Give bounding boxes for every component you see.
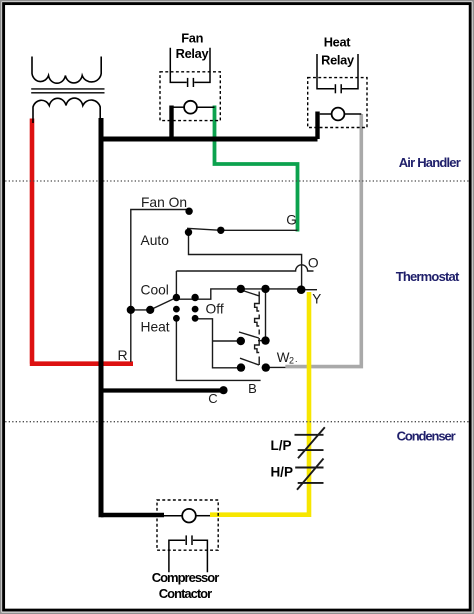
svg-text:W: W xyxy=(277,350,290,365)
svg-text:.: . xyxy=(295,354,298,364)
svg-text:G: G xyxy=(286,213,297,228)
svg-text:O: O xyxy=(308,256,319,271)
svg-text:Fan: Fan xyxy=(181,30,203,45)
svg-text:B: B xyxy=(248,381,257,396)
svg-text:Compressor: Compressor xyxy=(152,570,220,585)
svg-text:2: 2 xyxy=(289,356,294,366)
svg-text:Relay: Relay xyxy=(176,46,210,61)
svg-text:Condenser: Condenser xyxy=(397,428,456,443)
svg-text:R: R xyxy=(118,347,128,363)
svg-text:Air Handler: Air Handler xyxy=(399,155,461,170)
svg-text:Y: Y xyxy=(312,292,321,307)
svg-text:Auto: Auto xyxy=(141,233,170,248)
svg-text:Relay: Relay xyxy=(321,52,355,67)
svg-text:Fan On: Fan On xyxy=(141,195,187,210)
svg-text:H/P: H/P xyxy=(270,465,293,480)
svg-text:L/P: L/P xyxy=(270,438,291,453)
svg-text:Contactor: Contactor xyxy=(159,586,212,601)
svg-text:Off: Off xyxy=(206,302,224,317)
svg-text:Thermostat: Thermostat xyxy=(396,269,460,284)
svg-text:Cool: Cool xyxy=(141,283,169,298)
svg-text:Heat: Heat xyxy=(141,320,170,335)
svg-text:Heat: Heat xyxy=(324,34,352,49)
svg-text:C: C xyxy=(208,391,217,406)
